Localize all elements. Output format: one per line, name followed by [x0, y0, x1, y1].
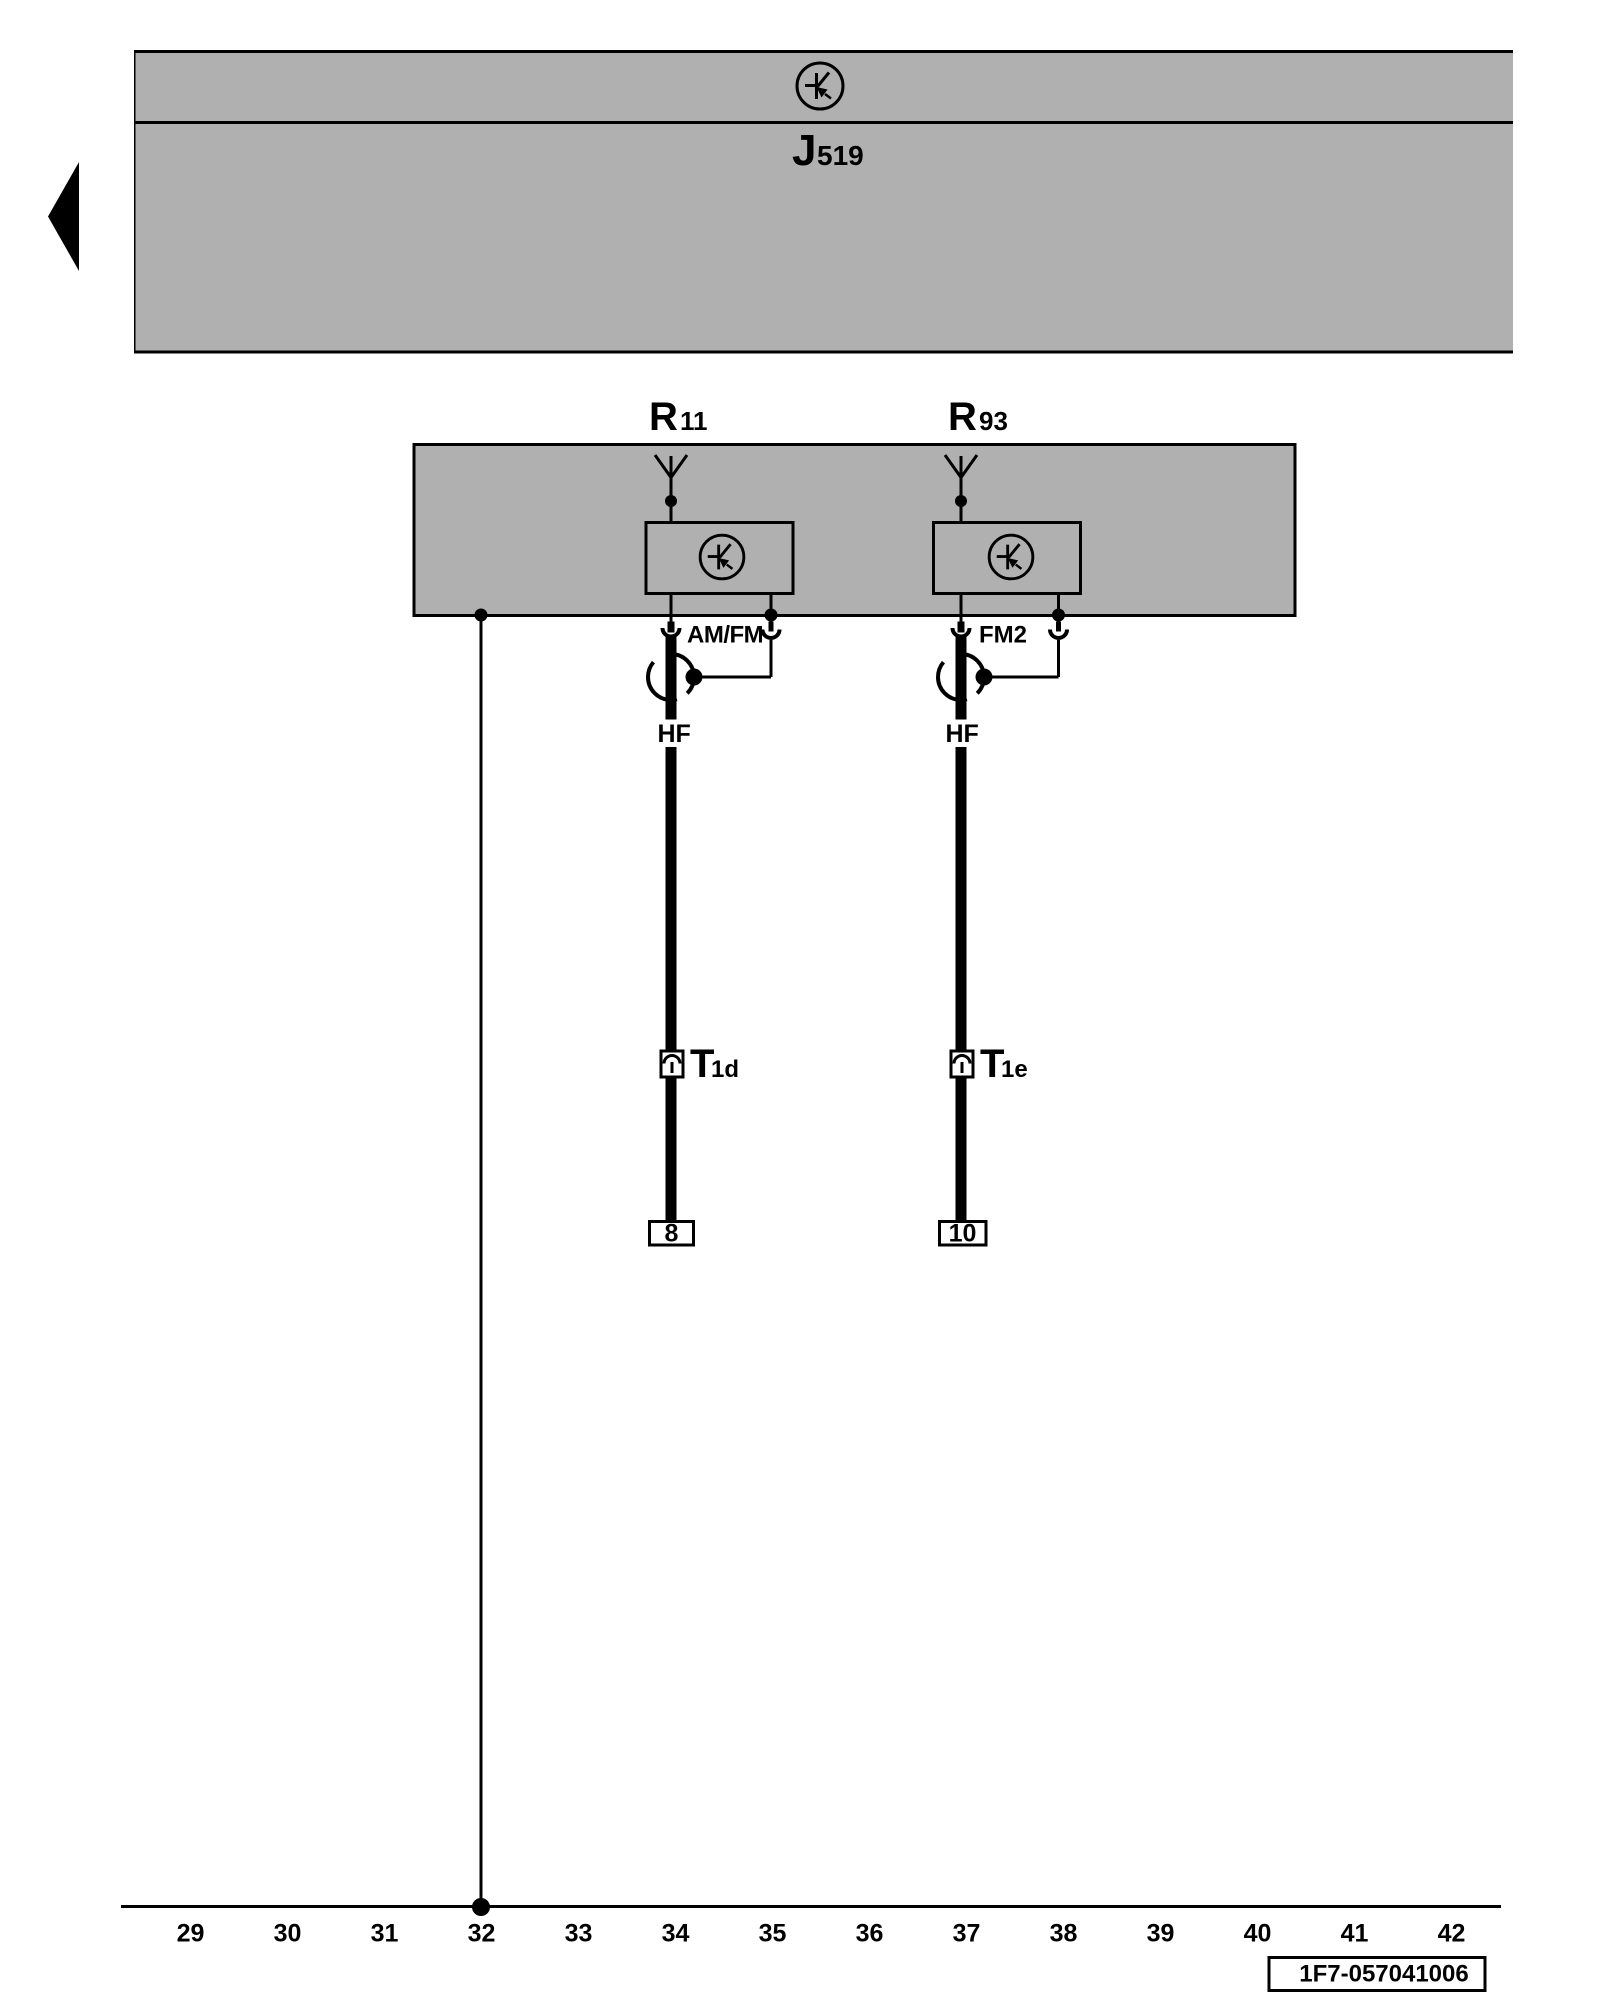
- svg-text:HF: HF: [658, 720, 691, 748]
- svg-text:1d: 1d: [711, 1056, 739, 1083]
- svg-text:R: R: [948, 395, 977, 439]
- svg-text:1e: 1e: [1001, 1056, 1028, 1083]
- svg-text:31: 31: [371, 1920, 399, 1948]
- svg-text:J: J: [792, 126, 816, 175]
- svg-text:29: 29: [177, 1920, 205, 1948]
- svg-text:FM2: FM2: [979, 622, 1027, 649]
- svg-text:41: 41: [1341, 1920, 1369, 1948]
- svg-text:HF: HF: [946, 720, 979, 748]
- svg-text:42: 42: [1438, 1920, 1466, 1948]
- svg-text:35: 35: [759, 1920, 787, 1948]
- svg-text:34: 34: [662, 1920, 690, 1948]
- svg-text:10: 10: [949, 1220, 977, 1248]
- svg-text:40: 40: [1244, 1920, 1272, 1948]
- svg-text:38: 38: [1050, 1920, 1078, 1948]
- svg-text:R: R: [649, 395, 678, 439]
- svg-text:11: 11: [680, 406, 708, 436]
- svg-text:519: 519: [817, 140, 864, 171]
- svg-text:30: 30: [274, 1920, 302, 1948]
- svg-text:36: 36: [856, 1920, 884, 1948]
- svg-text:37: 37: [953, 1920, 981, 1948]
- svg-text:8: 8: [665, 1220, 679, 1248]
- svg-text:33: 33: [565, 1920, 593, 1948]
- svg-text:AM/FM: AM/FM: [687, 622, 763, 649]
- svg-text:93: 93: [979, 406, 1008, 436]
- svg-text:39: 39: [1147, 1920, 1175, 1948]
- svg-text:32: 32: [468, 1920, 496, 1948]
- svg-text:1F7-057041006: 1F7-057041006: [1299, 1961, 1468, 1988]
